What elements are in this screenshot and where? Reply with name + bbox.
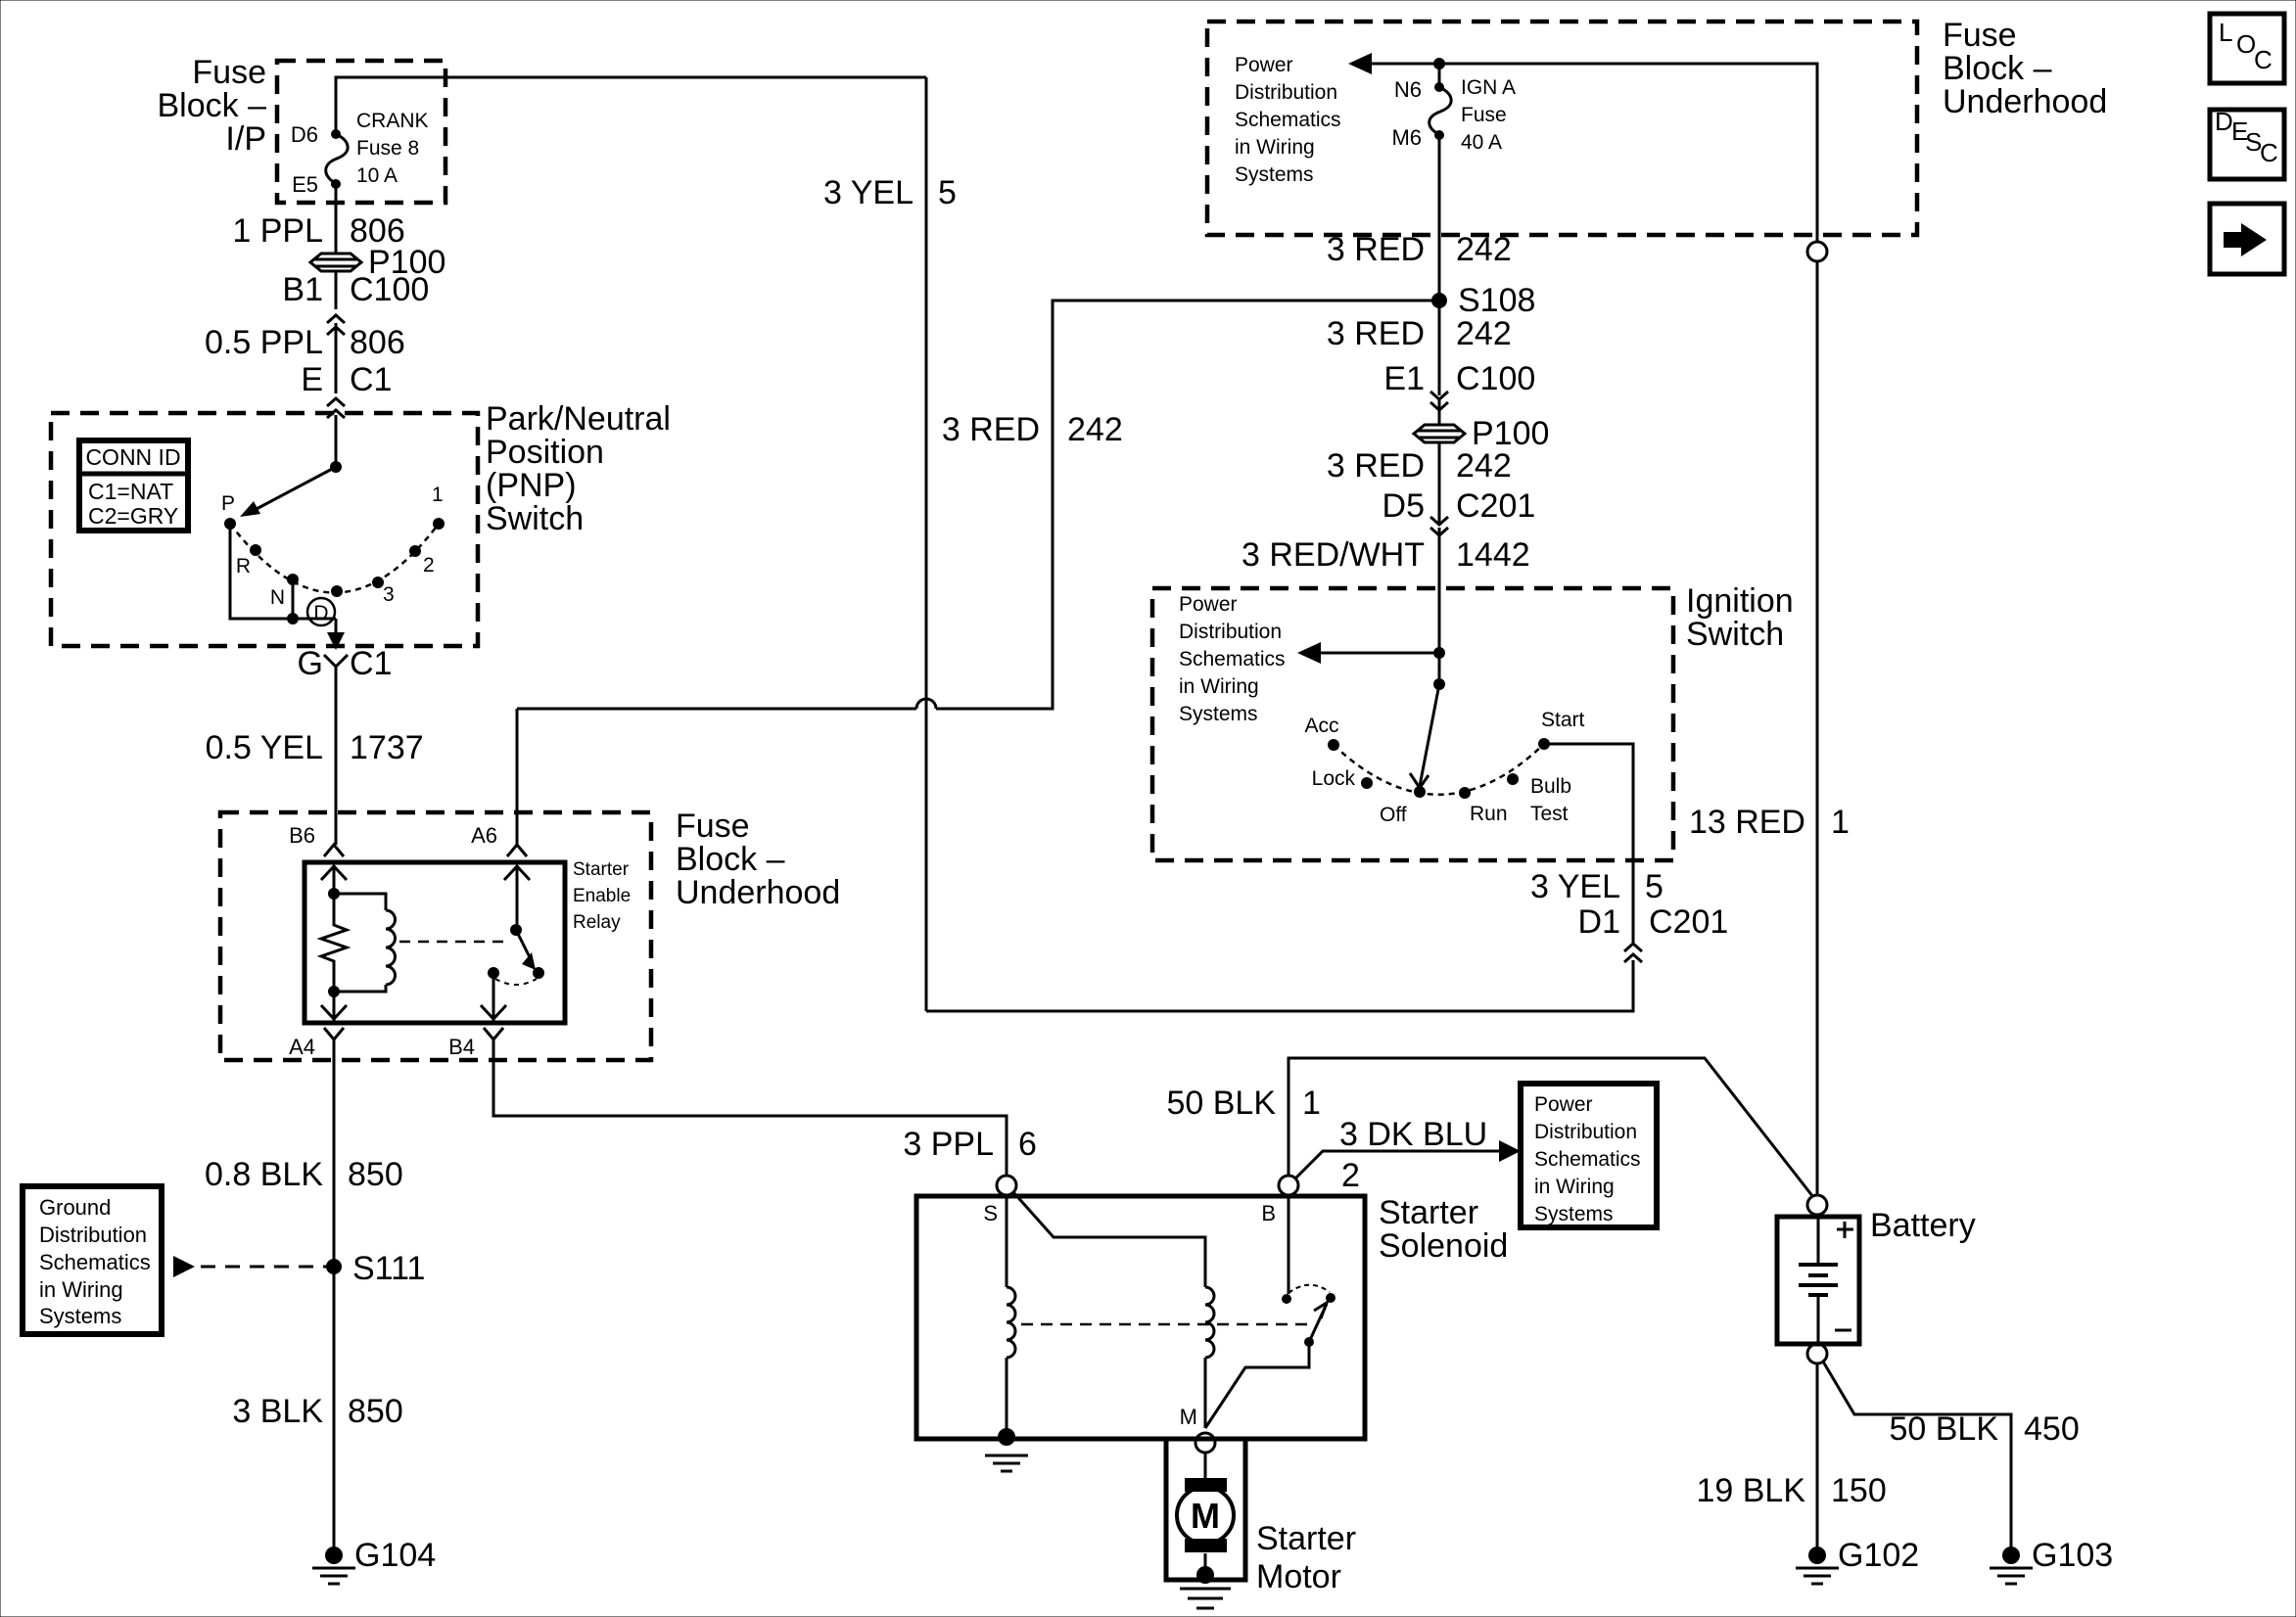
wire xyxy=(1438,653,1441,684)
connector P100 (right) xyxy=(1414,425,1465,442)
fuse CRANK Fuse 8 10 A xyxy=(326,134,348,184)
wire 3 YEL 5 vertical xyxy=(925,77,928,1011)
svg-text:Motor: Motor xyxy=(1256,1558,1341,1595)
svg-text:Test: Test xyxy=(1530,803,1569,825)
svg-text:C: C xyxy=(2260,138,2278,167)
svg-text:Lock: Lock xyxy=(1312,767,1356,790)
terminal S xyxy=(997,1176,1016,1195)
wire xyxy=(1438,400,1441,425)
reference arrow left (ignition) xyxy=(1297,642,1321,664)
wire 3 RED 242 to relay A6 xyxy=(936,300,1439,709)
relay junction bottom xyxy=(328,986,340,997)
wire 19 BLK 150 to G102 xyxy=(1816,1363,1819,1555)
battery minus sign xyxy=(1835,1329,1851,1332)
svg-text:3 YEL: 3 YEL xyxy=(823,174,914,211)
dashed travel arc xyxy=(230,524,439,593)
svg-text:D: D xyxy=(313,602,328,624)
wire 50 BLK 450 to G103 xyxy=(1823,1362,2011,1555)
svg-text:in Wiring: in Wiring xyxy=(1235,136,1315,159)
wire 3 RED 242 S108 to C100 xyxy=(1438,300,1441,395)
wire 50 BLK 1 xyxy=(1289,1058,1813,1197)
relay mechanical dashed link xyxy=(399,941,506,944)
svg-text:G: G xyxy=(298,645,323,682)
svg-text:19 BLK: 19 BLK xyxy=(1696,1472,1805,1509)
wire down with arrowhead out of box xyxy=(335,619,338,646)
ground G103 xyxy=(2002,1547,2020,1564)
svg-text:50 BLK: 50 BLK xyxy=(1166,1085,1276,1122)
contact P xyxy=(224,518,236,530)
svg-text:Power: Power xyxy=(1534,1093,1593,1116)
svg-text:3 RED/WHT: 3 RED/WHT xyxy=(1242,536,1425,574)
svg-text:C100: C100 xyxy=(1456,360,1535,397)
solenoid pull-in coil xyxy=(1006,1195,1008,1287)
junction node xyxy=(330,461,342,473)
svg-text:D1: D1 xyxy=(1578,903,1620,941)
svg-text:G104: G104 xyxy=(354,1537,436,1574)
starter enable relay box xyxy=(305,862,565,1023)
pin D6 xyxy=(331,129,341,139)
relay coil circuit arrow up xyxy=(321,866,347,880)
svg-text:N6: N6 xyxy=(1394,77,1422,102)
wire feed horizontal xyxy=(1370,64,1817,242)
svg-text:E1: E1 xyxy=(1383,360,1425,397)
svg-text:B6: B6 xyxy=(289,823,315,848)
svg-text:A6: A6 xyxy=(471,823,497,848)
wire 0.8 BLK 850 xyxy=(333,1039,336,1267)
svg-text:B1: B1 xyxy=(282,271,323,308)
starter solenoid box xyxy=(916,1196,1365,1439)
wire 3 YEL bottom horizontal xyxy=(926,960,1633,1011)
svg-text:10 A: 10 A xyxy=(356,164,398,187)
svg-text:242: 242 xyxy=(1456,315,1512,352)
wire hop over 3 YEL xyxy=(916,699,936,709)
svg-text:Position: Position xyxy=(486,434,604,471)
wire xyxy=(335,271,338,309)
ignition wiper arm arrow to Off xyxy=(1420,684,1439,786)
svg-text:Solenoid: Solenoid xyxy=(1379,1227,1508,1265)
svg-text:Schematics: Schematics xyxy=(1534,1148,1641,1171)
splice S111 xyxy=(326,1259,342,1274)
wire M terminal to motor xyxy=(1204,1453,1207,1480)
position Start xyxy=(1538,738,1550,750)
svg-text:Starter: Starter xyxy=(573,859,630,880)
contact R xyxy=(250,544,261,556)
svg-text:C1: C1 xyxy=(350,361,392,398)
svg-text:Distribution: Distribution xyxy=(1179,621,1282,643)
svg-text:242: 242 xyxy=(1456,231,1512,268)
svg-text:C2=GRY: C2=GRY xyxy=(88,503,178,529)
wire 3 RED 242 from fuse to S108 xyxy=(1438,135,1441,300)
svg-text:5: 5 xyxy=(1645,868,1663,905)
wire 3 BLK 850 xyxy=(333,1267,336,1555)
svg-text:Systems: Systems xyxy=(1179,703,1258,725)
reference arrow left xyxy=(1348,53,1372,74)
solenoid contact dashed travel arc xyxy=(1289,1285,1330,1293)
svg-text:Block –: Block – xyxy=(1943,50,2052,87)
svg-text:I/P: I/P xyxy=(225,120,266,158)
wire B4 to starter solenoid S xyxy=(493,1039,1007,1176)
svg-text:1 PPL: 1 PPL xyxy=(232,212,323,250)
terminal B xyxy=(1279,1176,1298,1195)
svg-text:Systems: Systems xyxy=(39,1304,121,1328)
solenoid hold-in coil to M xyxy=(1204,1358,1207,1428)
svg-text:3 RED: 3 RED xyxy=(1327,231,1425,268)
svg-text:M: M xyxy=(1191,1496,1220,1536)
svg-text:Bulb: Bulb xyxy=(1530,775,1571,798)
fuse block underhood dashed box (top right) xyxy=(1207,22,1917,235)
svg-text:A4: A4 xyxy=(289,1035,315,1059)
svg-text:D6: D6 xyxy=(291,122,318,147)
svg-text:Switch: Switch xyxy=(1686,616,1784,653)
ground G102 xyxy=(1808,1547,1826,1564)
svg-text:C201: C201 xyxy=(1649,903,1728,941)
svg-text:450: 450 xyxy=(2024,1410,2080,1448)
relay thrown contact xyxy=(533,967,544,979)
svg-text:D: D xyxy=(2215,107,2233,136)
fuse block I/P dashed box xyxy=(277,61,445,203)
svg-text:3 RED: 3 RED xyxy=(1327,447,1425,485)
svg-text:C1=NAT: C1=NAT xyxy=(88,479,173,504)
svg-text:Fuse: Fuse xyxy=(1943,17,2017,54)
relay wire xyxy=(333,866,336,894)
svg-text:242: 242 xyxy=(1067,411,1123,448)
wire motor to ground xyxy=(1204,1553,1207,1575)
svg-text:806: 806 xyxy=(350,324,405,361)
svg-text:C100: C100 xyxy=(350,271,429,308)
svg-text:N: N xyxy=(270,586,285,609)
wire Start out xyxy=(1544,744,1633,860)
svg-text:Schematics: Schematics xyxy=(1179,648,1286,670)
wire to note arrow xyxy=(1319,652,1439,655)
svg-text:5: 5 xyxy=(938,174,957,211)
contact 3 xyxy=(372,577,384,588)
reference arrow right xyxy=(1499,1140,1521,1162)
svg-text:Distribution: Distribution xyxy=(1534,1121,1637,1143)
svg-text:850: 850 xyxy=(348,1156,403,1193)
svg-text:B4: B4 xyxy=(448,1035,475,1059)
svg-text:S: S xyxy=(983,1201,998,1225)
svg-text:Power: Power xyxy=(1235,54,1293,76)
battery cells xyxy=(1817,1217,1820,1265)
LOC page box xyxy=(2210,14,2284,83)
solenoid hold-in coil feed xyxy=(1013,1192,1205,1287)
svg-text:2: 2 xyxy=(423,554,435,577)
svg-text:3 BLK: 3 BLK xyxy=(232,1393,323,1430)
battery minus terminal xyxy=(1807,1344,1827,1363)
svg-text:Schematics: Schematics xyxy=(39,1250,151,1274)
svg-text:(PNP): (PNP) xyxy=(486,467,577,504)
position Bulb Test xyxy=(1507,773,1519,785)
battery box xyxy=(1777,1217,1859,1344)
svg-text:Ground: Ground xyxy=(39,1195,111,1220)
pin M6 xyxy=(1434,130,1444,140)
pin N6 xyxy=(1434,82,1444,92)
svg-text:Distribution: Distribution xyxy=(39,1223,147,1247)
wire 13 RED 1 down to battery xyxy=(1816,261,1819,1195)
svg-text:Park/Neutral: Park/Neutral xyxy=(486,400,671,438)
svg-text:1: 1 xyxy=(1302,1085,1321,1122)
ignition wiper pivot node xyxy=(1433,678,1445,690)
motor brush top xyxy=(1185,1478,1227,1492)
svg-text:Schematics: Schematics xyxy=(1235,109,1341,131)
svg-text:0.5 YEL: 0.5 YEL xyxy=(206,729,323,766)
svg-text:Underhood: Underhood xyxy=(676,874,840,911)
starter motor box xyxy=(1166,1439,1245,1580)
svg-text:3 YEL: 3 YEL xyxy=(1530,868,1620,905)
wire to fuse N6 xyxy=(1438,64,1441,87)
relay stationary contact xyxy=(488,967,499,979)
splice S108 xyxy=(1431,293,1447,308)
svg-text:Block –: Block – xyxy=(676,841,785,878)
svg-text:G103: G103 xyxy=(2032,1537,2113,1574)
svg-text:40 A: 40 A xyxy=(1461,131,1502,154)
solenoid ground xyxy=(998,1428,1015,1446)
wire 3 DK BLU 2 xyxy=(1295,1151,1501,1178)
svg-text:Starter: Starter xyxy=(1379,1194,1478,1231)
svg-text:Off: Off xyxy=(1380,804,1407,826)
svg-text:6: 6 xyxy=(1018,1126,1037,1163)
relay coil xyxy=(334,894,386,910)
svg-text:R: R xyxy=(236,555,251,577)
svg-text:CONN ID: CONN ID xyxy=(85,444,180,470)
ground G104 xyxy=(325,1547,343,1564)
svg-text:C201: C201 xyxy=(1456,487,1535,525)
svg-text:Block –: Block – xyxy=(158,87,267,124)
contact 2 xyxy=(409,545,421,557)
wire P to bottom rail xyxy=(230,524,336,619)
svg-text:M6: M6 xyxy=(1391,125,1422,150)
svg-text:50 BLK: 50 BLK xyxy=(1889,1410,1998,1448)
wire 3 RED 242 to C201 xyxy=(1438,442,1441,523)
svg-text:Fuse: Fuse xyxy=(1461,104,1507,126)
junction node xyxy=(1433,647,1445,659)
contact D with circle xyxy=(331,585,343,597)
contact N xyxy=(287,574,299,585)
relay contact dashed travel arc xyxy=(495,979,537,985)
svg-text:1: 1 xyxy=(1831,804,1850,841)
svg-text:Starter: Starter xyxy=(1256,1520,1356,1557)
ignition switch dashed box xyxy=(1152,588,1673,860)
svg-text:Relay: Relay xyxy=(573,912,621,933)
wire 0.5 YEL 1737 xyxy=(335,667,338,845)
next page arrow box xyxy=(2210,204,2284,274)
svg-text:B: B xyxy=(1261,1201,1276,1225)
svg-text:Battery: Battery xyxy=(1870,1207,1976,1244)
battery plus sign xyxy=(1837,1228,1853,1231)
svg-text:Fuse: Fuse xyxy=(676,808,750,845)
pin E5 xyxy=(331,179,341,189)
svg-text:Power: Power xyxy=(1179,593,1238,616)
solenoid mechanical dashed link xyxy=(1021,1323,1313,1326)
solenoid thrown contact xyxy=(1326,1293,1335,1303)
svg-text:0.8 BLK: 0.8 BLK xyxy=(205,1156,323,1193)
starter motor M xyxy=(1177,1487,1234,1544)
svg-text:E5: E5 xyxy=(292,172,318,197)
park/neutral position switch dashed box xyxy=(51,413,478,646)
svg-text:Systems: Systems xyxy=(1235,163,1314,186)
position Run xyxy=(1459,787,1471,799)
svg-text:850: 850 xyxy=(348,1393,403,1430)
svg-text:S108: S108 xyxy=(1458,282,1535,319)
solenoid pull-in coil ground wire xyxy=(1006,1358,1008,1437)
wire N to bottom rail xyxy=(292,579,295,619)
dashed position arc xyxy=(1334,744,1544,795)
svg-text:1: 1 xyxy=(432,484,444,506)
svg-text:1737: 1737 xyxy=(350,729,424,766)
svg-text:Underhood: Underhood xyxy=(1943,83,2107,120)
CONN ID box xyxy=(79,440,188,531)
wire 3 RED/WHT 1442 xyxy=(1438,528,1441,654)
svg-text:Fuse 8: Fuse 8 xyxy=(356,137,419,160)
wire into PNP switch xyxy=(335,415,338,467)
relay wire down arrow xyxy=(333,992,336,1021)
position Off xyxy=(1414,786,1426,798)
position Lock xyxy=(1361,777,1373,789)
connector P100 xyxy=(310,254,361,271)
solenoid hold-in coil xyxy=(1205,1287,1214,1358)
svg-text:0.5 PPL: 0.5 PPL xyxy=(205,324,323,361)
terminal circle to battery feed xyxy=(1807,242,1827,261)
svg-text:2: 2 xyxy=(1341,1157,1360,1194)
terminal M xyxy=(1195,1433,1215,1453)
wire A6 entry xyxy=(516,709,519,845)
wire 1 PPL 806 xyxy=(335,184,338,254)
svg-text:Ignition: Ignition xyxy=(1686,582,1794,620)
wire start to D1 xyxy=(1632,860,1635,944)
solenoid contact B xyxy=(1288,1195,1290,1294)
svg-text:3: 3 xyxy=(383,583,395,606)
svg-text:Start: Start xyxy=(1541,709,1585,731)
svg-text:L: L xyxy=(2219,18,2232,47)
svg-text:Distribution: Distribution xyxy=(1235,81,1337,104)
solenoid switch arm xyxy=(1205,1342,1309,1428)
svg-text:in Wiring: in Wiring xyxy=(1534,1176,1615,1198)
svg-text:242: 242 xyxy=(1456,447,1512,485)
contact 1 xyxy=(433,518,445,530)
switch wiper arm with arrowhead xyxy=(255,467,336,510)
svg-text:3 PPL: 3 PPL xyxy=(903,1126,994,1163)
relay junction top xyxy=(328,888,340,900)
svg-text:C1: C1 xyxy=(350,645,392,682)
svg-text:Enable: Enable xyxy=(573,886,631,906)
relay output wire down arrow xyxy=(492,973,495,1021)
svg-text:C: C xyxy=(2254,45,2273,74)
svg-text:3 RED: 3 RED xyxy=(942,411,1040,448)
fuse block underhood dashed box (left) xyxy=(220,812,651,1060)
relay switch arm with arrowhead xyxy=(516,930,530,957)
svg-text:M: M xyxy=(1180,1405,1197,1429)
svg-text:150: 150 xyxy=(1831,1472,1887,1509)
DESC page box xyxy=(2210,110,2284,179)
junction node xyxy=(1433,58,1445,69)
reference arrow xyxy=(173,1256,195,1277)
svg-text:Fuse: Fuse xyxy=(192,54,266,91)
wire 0.5 PPL 806 xyxy=(335,323,338,393)
svg-text:IGN A: IGN A xyxy=(1461,76,1516,99)
ground distribution schematics note box xyxy=(23,1186,162,1334)
svg-text:1442: 1442 xyxy=(1456,536,1530,574)
svg-text:3 RED: 3 RED xyxy=(1327,315,1425,352)
svg-text:3 DK BLU: 3 DK BLU xyxy=(1339,1116,1487,1153)
fuse IGN A Fuse 40 A xyxy=(1429,87,1451,135)
svg-text:S111: S111 xyxy=(352,1250,425,1287)
svg-text:D5: D5 xyxy=(1382,487,1425,525)
starter motor ground xyxy=(1196,1566,1214,1584)
svg-text:Switch: Switch xyxy=(486,500,584,537)
position Acc xyxy=(1328,739,1339,751)
battery plus terminal xyxy=(1807,1195,1827,1215)
svg-text:Run: Run xyxy=(1470,803,1508,825)
svg-text:13 RED: 13 RED xyxy=(1689,804,1805,841)
svg-text:P: P xyxy=(221,492,235,515)
svg-text:CRANK: CRANK xyxy=(356,110,429,132)
svg-text:Acc: Acc xyxy=(1304,715,1338,737)
svg-text:G102: G102 xyxy=(1838,1537,1919,1574)
wire 3 YEL top horizontal xyxy=(336,77,926,134)
power distribution schematics note box (solenoid) xyxy=(1521,1084,1657,1227)
svg-text:in Wiring: in Wiring xyxy=(39,1277,123,1302)
motor brush bottom xyxy=(1185,1539,1227,1552)
svg-text:E: E xyxy=(301,361,323,398)
svg-text:in Wiring: in Wiring xyxy=(1179,675,1259,698)
relay switch pivot xyxy=(516,866,519,930)
relay resistor xyxy=(321,894,347,992)
svg-text:Systems: Systems xyxy=(1534,1203,1614,1225)
dashed reference line xyxy=(201,1266,329,1269)
